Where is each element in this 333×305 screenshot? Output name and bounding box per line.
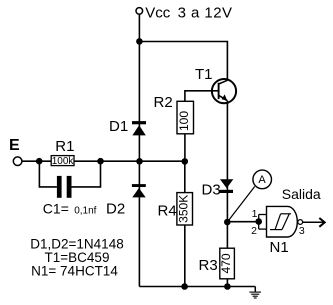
svg-text:T1: T1 <box>195 66 213 83</box>
wire C1 branch left <box>39 161 57 187</box>
meter A <box>253 170 272 189</box>
svg-text:E: E <box>9 137 20 154</box>
wire emitter column <box>226 101 228 222</box>
node output junction <box>224 219 231 226</box>
capacitor C1 <box>57 176 72 198</box>
wire output arrow <box>303 218 325 227</box>
wire junction to R3 <box>226 222 228 249</box>
svg-text:D3: D3 <box>202 182 221 199</box>
svg-text:N1= 74HCT14: N1= 74HCT14 <box>31 264 118 279</box>
svg-text:350K: 350K <box>176 195 190 223</box>
gate output bubble <box>298 220 303 225</box>
wire node to R4 <box>184 161 186 192</box>
transistor T1 <box>212 79 236 103</box>
wire junction to gate input <box>227 221 258 223</box>
wire Vcc column down to node <box>138 41 140 161</box>
svg-text:Salida: Salida <box>282 186 321 202</box>
gate input tie (pins 1,2) <box>259 215 267 230</box>
wire top rail <box>139 42 227 81</box>
wire pointer to meter A <box>228 187 254 221</box>
resistor R4 <box>177 193 193 225</box>
svg-text:Vcc3 a 12V: Vcc3 a 12V <box>145 4 232 21</box>
svg-text:2: 2 <box>251 225 257 237</box>
svg-text:100: 100 <box>177 111 191 131</box>
node gate input <box>255 218 262 225</box>
node R4 bottom <box>181 283 188 290</box>
svg-text:A: A <box>258 174 266 186</box>
svg-text:470: 470 <box>219 253 233 273</box>
wire R2 bottom <box>184 134 186 161</box>
node R2-R4 junction <box>182 158 189 165</box>
wire base to R2 <box>185 91 219 102</box>
wire Vcc down <box>138 14 140 41</box>
svg-text:R3: R3 <box>199 257 218 274</box>
wire node down through D2 to bottom rail <box>138 161 140 286</box>
gate N1 (Schmitt inverter 74HCT14) <box>267 206 298 237</box>
node R1 right <box>97 158 104 165</box>
svg-text:D2: D2 <box>106 201 125 218</box>
diode D2 <box>132 184 146 197</box>
wire C1 branch right <box>72 161 101 187</box>
svg-text:D1: D1 <box>109 118 128 135</box>
node R1 left <box>36 158 43 165</box>
svg-text:3: 3 <box>299 225 305 237</box>
resistor R2 <box>177 101 194 134</box>
svg-text:R1: R1 <box>55 138 74 155</box>
wire E to node <box>22 160 185 162</box>
svg-text:100k: 100k <box>52 156 75 167</box>
resistor R3 <box>220 248 235 279</box>
svg-text:R4: R4 <box>158 203 177 220</box>
resistor R1 <box>51 156 74 166</box>
svg-text:1: 1 <box>252 208 258 220</box>
svg-text:N1: N1 <box>270 239 289 256</box>
terminal E <box>13 157 22 166</box>
terminal Vcc <box>136 8 143 15</box>
node Vcc junction <box>136 38 143 45</box>
hysteresis symbol <box>270 214 291 230</box>
wire R4 bottom <box>184 225 186 287</box>
node D1-D2 junction <box>136 158 143 165</box>
diode D3 <box>220 179 234 193</box>
diode D1 <box>132 121 146 135</box>
ground <box>249 287 261 299</box>
wire R3 bottom <box>226 279 228 287</box>
wire bottom rail <box>139 286 255 288</box>
node R3 bottom <box>224 283 231 290</box>
svg-text:R2: R2 <box>154 94 173 111</box>
